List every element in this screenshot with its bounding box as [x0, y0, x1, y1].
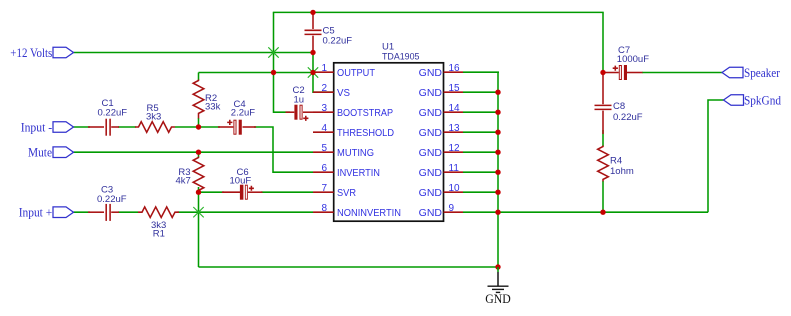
junction dot C7 node — [600, 70, 605, 75]
svg-text:GND: GND — [419, 187, 443, 199]
svg-text:Mute: Mute — [28, 146, 52, 160]
svg-text:1ohm: 1ohm — [610, 166, 634, 177]
svg-text:2: 2 — [321, 83, 327, 94]
junction dot bus pin15 — [495, 90, 500, 95]
svg-text:GND: GND — [419, 147, 443, 159]
wire C6 to pin7 SVR — [261, 191, 313, 193]
svg-text:3k3: 3k3 — [146, 112, 161, 123]
wire pin14 — [463, 111, 498, 113]
wire Input+ tag to C3 — [74, 211, 91, 213]
junction dot +12V/C5 — [310, 50, 315, 55]
wire R1 to pin8 NONINVERTIN — [178, 211, 314, 213]
resistor R5 — [135, 103, 175, 132]
pin 9 — [444, 211, 464, 213]
junction dot output node — [271, 70, 276, 75]
wire R4 bottom join — [602, 181, 604, 212]
svg-text:INVERTIN: INVERTIN — [337, 167, 380, 179]
global label SpkGnd — [724, 94, 782, 108]
junction dot bus pin14 — [495, 110, 500, 115]
svg-text:R1: R1 — [153, 229, 165, 240]
wire pin16 — [463, 71, 499, 73]
junction dot R3 top — [196, 150, 201, 155]
wire C8 to R4 — [602, 130, 604, 146]
svg-text:0.22uF: 0.22uF — [97, 194, 127, 205]
wire mute line to pin5 — [74, 151, 314, 153]
wire pin13 — [463, 131, 498, 133]
svg-text:SVR: SVR — [337, 187, 356, 199]
svg-text:0.22uF: 0.22uF — [613, 112, 643, 123]
svg-text:10uF: 10uF — [230, 175, 252, 186]
global label Input + — [19, 206, 74, 220]
svg-text:33k: 33k — [205, 102, 221, 113]
capacitor C2 (polarized) — [286, 85, 314, 121]
svg-text:BOOTSTRAP: BOOTSTRAP — [337, 107, 393, 119]
svg-text:3: 3 — [321, 103, 327, 114]
wire Input- tag to C1 — [74, 126, 91, 128]
svg-text:VS: VS — [337, 87, 350, 99]
svg-text:SpkGnd: SpkGnd — [744, 94, 782, 108]
no-connect X at +12V crossing — [268, 47, 278, 57]
svg-text:Speaker: Speaker — [744, 66, 781, 80]
wire VS drop to pin2 — [313, 53, 333, 93]
wire R3 top join — [198, 152, 200, 157]
wire top horizontal — [273, 11, 604, 13]
svg-text:R4: R4 — [610, 155, 622, 166]
resistor R3 — [175, 157, 203, 193]
pin 15 — [444, 91, 464, 93]
svg-text:GND: GND — [485, 291, 511, 306]
pin 4 — [313, 131, 334, 133]
svg-text:4k7: 4k7 — [175, 175, 190, 186]
svg-text:C8: C8 — [613, 101, 625, 112]
svg-text:5: 5 — [321, 143, 327, 154]
svg-text:OUTPUT: OUTPUT — [337, 67, 376, 79]
wire top-left vertical — [273, 12, 275, 72]
pin 14 — [444, 111, 464, 113]
wire R2 top join — [198, 73, 200, 81]
svg-text:1: 1 — [321, 63, 327, 74]
resistor R2 — [193, 80, 220, 119]
svg-text:GND: GND — [419, 207, 443, 219]
svg-text:0.22uF: 0.22uF — [98, 108, 128, 119]
junction dot bus pin13 — [495, 130, 500, 135]
wire C2 elbow from output node — [274, 73, 291, 113]
wire pin11 — [463, 171, 498, 173]
no-connect X at pin1/VS — [308, 67, 318, 77]
pin 8 — [313, 211, 334, 213]
wire pin12 — [463, 151, 498, 153]
global label Mute — [28, 146, 74, 160]
wire pin9 to right — [463, 211, 708, 213]
svg-text:13: 13 — [449, 123, 461, 134]
capacitor C6 (polarized) — [222, 167, 263, 200]
svg-text:Input +: Input + — [19, 206, 53, 220]
capacitor C4 (polarized) — [218, 99, 256, 135]
resistor R4 — [598, 146, 634, 182]
wire C7 to Speaker — [642, 72, 722, 74]
global label Speaker — [722, 66, 781, 80]
capacitor C1 — [88, 98, 127, 136]
pin 6 — [313, 171, 334, 173]
pin 13 — [444, 131, 464, 133]
svg-text:8: 8 — [321, 203, 327, 214]
svg-text:0.22uF: 0.22uF — [323, 36, 353, 47]
svg-text:15: 15 — [449, 83, 461, 94]
global label +12 Volts — [10, 46, 73, 60]
pin 3 — [313, 111, 334, 113]
wire pin1 OUTPUT line — [199, 72, 314, 74]
svg-text:GND: GND — [419, 87, 443, 99]
capacitor C8 — [595, 73, 643, 135]
wire pin10 — [463, 191, 498, 193]
svg-text:GND: GND — [419, 107, 443, 119]
svg-text:11: 11 — [449, 163, 460, 174]
wire C3 to R1 — [118, 211, 138, 213]
wire +12V horizontal — [74, 52, 314, 54]
junction dot bus pin12 — [495, 150, 500, 155]
svg-text:1000uF: 1000uF — [617, 54, 649, 65]
svg-text:+12 Volts: +12 Volts — [10, 46, 52, 60]
wire R2 bottom join — [198, 118, 200, 127]
wire R3 bottom to ground rail — [198, 187, 200, 267]
wire pin15 — [463, 91, 498, 93]
junction dot rail GND — [495, 264, 500, 269]
wire GND bus vertical — [497, 72, 499, 267]
svg-text:GND: GND — [419, 67, 443, 79]
wire SpkGnd riser — [708, 100, 724, 212]
svg-text:7: 7 — [321, 183, 327, 194]
pin 12 — [444, 151, 464, 153]
svg-text:1u: 1u — [294, 95, 305, 106]
svg-text:4: 4 — [321, 123, 327, 134]
svg-text:2.2uF: 2.2uF — [231, 107, 255, 118]
svg-text:NONINVERTIN: NONINVERTIN — [337, 207, 401, 219]
pin 1 — [313, 71, 334, 73]
svg-text:THRESHOLD: THRESHOLD — [337, 127, 394, 139]
junction dot R2 bottom — [196, 124, 201, 129]
ground symbol GND — [485, 267, 511, 306]
wire C1 to R5 — [118, 126, 136, 128]
svg-text:MUTING: MUTING — [337, 147, 374, 159]
junction dot bus pin9 — [495, 210, 500, 215]
global label Input - — [21, 121, 74, 135]
pin 7 — [313, 191, 334, 193]
wire bottom rail — [199, 266, 499, 268]
pin 2 — [313, 91, 334, 93]
capacitor C7 (polarized) — [603, 45, 649, 80]
junction dot R3 bottom — [196, 190, 201, 195]
junction dot bus pin11 — [495, 170, 500, 175]
wire node to C6 — [199, 191, 225, 193]
svg-text:14: 14 — [449, 103, 461, 114]
wire R5 to C4 — [175, 126, 220, 128]
wire top-right vertical — [602, 12, 604, 72]
pin 5 — [313, 151, 334, 153]
svg-text:16: 16 — [449, 63, 461, 74]
svg-text:GND: GND — [419, 127, 443, 139]
svg-text:12: 12 — [449, 143, 461, 154]
svg-text:6: 6 — [321, 163, 327, 174]
svg-text:Input -: Input - — [21, 121, 53, 135]
pin 10 — [444, 191, 464, 193]
resistor R1 — [138, 207, 179, 240]
IC U1 TDA1905 — [313, 42, 463, 222]
capacitor C5 — [305, 12, 353, 52]
wire C4 to pin6 — [254, 127, 313, 172]
junction dot bus pin10 — [495, 190, 500, 195]
junction dot pin1/VS cross — [310, 70, 315, 75]
svg-text:9: 9 — [449, 203, 455, 214]
junction dot top C5 — [310, 10, 315, 15]
svg-text:10: 10 — [449, 183, 461, 194]
pin 11 — [444, 171, 464, 173]
pin 16 — [444, 71, 464, 73]
svg-text:TDA1905: TDA1905 — [382, 52, 420, 63]
junction dot R4 bottom — [600, 210, 605, 215]
svg-text:GND: GND — [419, 167, 443, 179]
no-connect X at input+ crossing — [193, 207, 203, 217]
capacitor C3 — [88, 185, 127, 221]
